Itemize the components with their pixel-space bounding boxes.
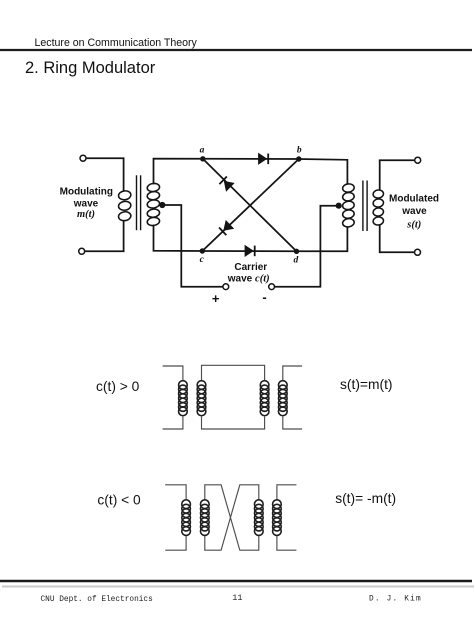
diode D4 (on diagonal, points to c) bbox=[219, 221, 233, 235]
diode D1 (top, a to b) bbox=[259, 154, 269, 165]
wire: b to right transformer primary top bbox=[299, 159, 348, 183]
wire: d2 left stub top bbox=[165, 485, 186, 500]
svg-text:D. J. Kim: D. J. Kim bbox=[369, 595, 422, 603]
svg-text:m(t): m(t) bbox=[77, 209, 95, 220]
svg-text:Carrier: Carrier bbox=[234, 262, 267, 273]
header rule bbox=[0, 49, 472, 51]
wire: d1 left stub top bbox=[163, 366, 183, 381]
svg-text:Modulated: Modulated bbox=[389, 194, 439, 205]
wire: d2 left stub bottom bbox=[165, 536, 186, 551]
node d bbox=[294, 249, 299, 254]
svg-text:-: - bbox=[262, 290, 266, 305]
wire: diagonal a to d bbox=[203, 159, 297, 252]
node c bbox=[200, 248, 205, 253]
wire: left top terminal to transformer bbox=[86, 158, 123, 190]
wire: left secondary top to node a and on to node b bbox=[154, 159, 299, 184]
svg-text:2. Ring Modulator: 2. Ring Modulator bbox=[25, 59, 156, 77]
svg-text:s(t): s(t) bbox=[406, 219, 421, 230]
node: T2 center tap bbox=[336, 203, 342, 209]
wire: d1 right stub top bbox=[283, 366, 302, 381]
wire: left center tap to carrier + terminal bbox=[162, 205, 222, 287]
svg-text:s(t)= -m(t): s(t)= -m(t) bbox=[335, 491, 396, 506]
svg-text:a: a bbox=[200, 146, 205, 156]
wire: left primary bottom bbox=[85, 222, 124, 252]
wire: right secondary bottom to output terminal bbox=[380, 225, 415, 252]
transformer T1 secondary coil bbox=[147, 183, 160, 227]
svg-text:Modulating: Modulating bbox=[60, 187, 113, 198]
wire: d2 crossover top-left arm bbox=[205, 485, 259, 550]
coil L2 (d2) bbox=[200, 500, 209, 536]
terminal: carrier + bbox=[223, 284, 229, 290]
svg-text:Lecture on Communication Theor: Lecture on Communication Theory bbox=[35, 37, 198, 49]
terminal: input top bbox=[80, 155, 86, 161]
wire: d2 crossover bottom-left arm bbox=[205, 485, 259, 550]
svg-text:wave: wave bbox=[401, 206, 427, 217]
wire: left secondary bottom to node c bbox=[154, 226, 203, 252]
svg-text:CNU Dept. of Electronics: CNU Dept. of Electronics bbox=[41, 596, 154, 604]
wire: right secondary top to output terminal bbox=[380, 160, 415, 189]
svg-text:c: c bbox=[200, 255, 205, 265]
terminal: output bottom bbox=[415, 249, 421, 255]
terminal: output top bbox=[415, 157, 421, 163]
coil L1 (d1) bbox=[179, 381, 188, 416]
wire: ring bottom c to d to right transformer bbox=[202, 228, 347, 252]
svg-text:+: + bbox=[212, 291, 220, 306]
transformer T1 core bbox=[137, 175, 141, 230]
footer rule light bbox=[2, 586, 474, 588]
svg-text:11: 11 bbox=[232, 593, 242, 603]
wire: d2 right stub bottom bbox=[277, 536, 297, 551]
wire: right center tap to carrier - terminal bbox=[275, 206, 339, 287]
diode D3 (on diagonal, points to a) bbox=[219, 177, 233, 191]
coil L4 (d2) bbox=[273, 500, 282, 536]
svg-text:wave c(t): wave c(t) bbox=[227, 274, 270, 285]
coil L2 (d1) bbox=[197, 381, 206, 416]
wire: diagonal c to b bbox=[202, 159, 298, 251]
diode D2 (bottom, c to d) bbox=[245, 246, 255, 257]
coil L4 (d1) bbox=[278, 381, 287, 416]
node: T1 center tap bbox=[159, 202, 165, 208]
transformer T1 primary coil bbox=[118, 190, 132, 221]
coil L3 (d2) bbox=[254, 500, 263, 536]
svg-text:c(t) > 0: c(t) > 0 bbox=[96, 379, 140, 394]
svg-text:b: b bbox=[297, 145, 302, 155]
node b bbox=[296, 156, 301, 161]
transformer T2 primary coil bbox=[342, 183, 355, 228]
terminal: carrier - bbox=[269, 284, 275, 290]
wire: d1 inner rectangle top bbox=[202, 365, 265, 380]
wire: d1 left stub bottom bbox=[163, 417, 183, 429]
footer rule dark bbox=[0, 580, 472, 583]
coil L3 (d1) bbox=[260, 381, 269, 416]
node a bbox=[200, 156, 205, 161]
svg-text:d: d bbox=[294, 256, 299, 266]
coil L1 (d2) bbox=[182, 500, 191, 536]
wire: d1 inner rectangle bottom bbox=[202, 417, 265, 429]
terminal: input bottom bbox=[79, 248, 85, 254]
wire: d2 right stub top bbox=[277, 485, 297, 500]
transformer T2 core bbox=[363, 181, 367, 232]
wire: d1 right stub bottom bbox=[283, 417, 302, 429]
transformer T2 secondary coil bbox=[373, 189, 384, 225]
svg-text:c(t) < 0: c(t) < 0 bbox=[97, 492, 141, 507]
svg-text:s(t)=m(t): s(t)=m(t) bbox=[340, 377, 393, 392]
